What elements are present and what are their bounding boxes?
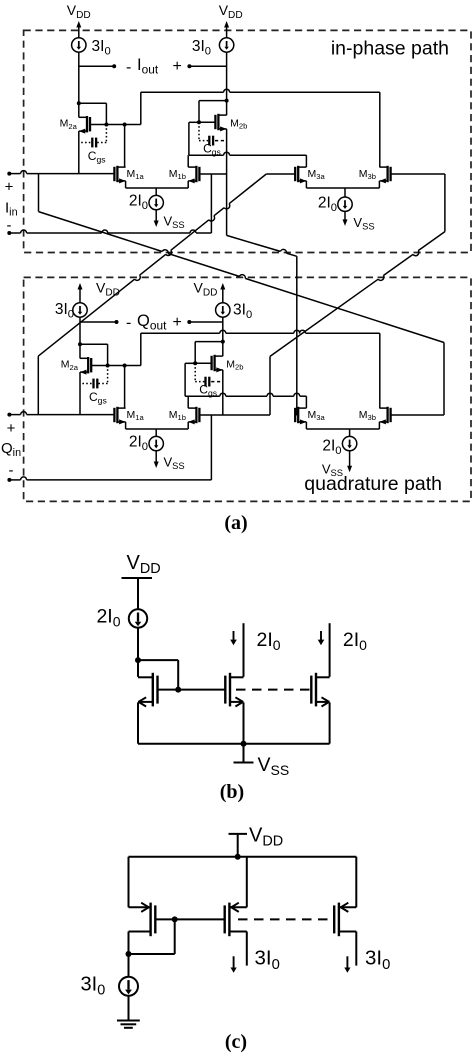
svg-text:(c): (c) <box>225 1031 247 1053</box>
svg-text:(b): (b) <box>220 781 244 803</box>
svg-text:+: + <box>7 420 16 437</box>
svg-text:+: + <box>173 314 182 331</box>
svg-text:+: + <box>173 58 182 75</box>
svg-text:+: + <box>5 179 14 196</box>
svg-text:-: - <box>126 59 131 76</box>
svg-text:(a): (a) <box>224 512 247 534</box>
svg-text:-: - <box>7 217 12 234</box>
svg-text:in-phase path: in-phase path <box>331 38 449 60</box>
svg-text:-: - <box>126 315 131 332</box>
svg-text:-: - <box>9 462 14 479</box>
